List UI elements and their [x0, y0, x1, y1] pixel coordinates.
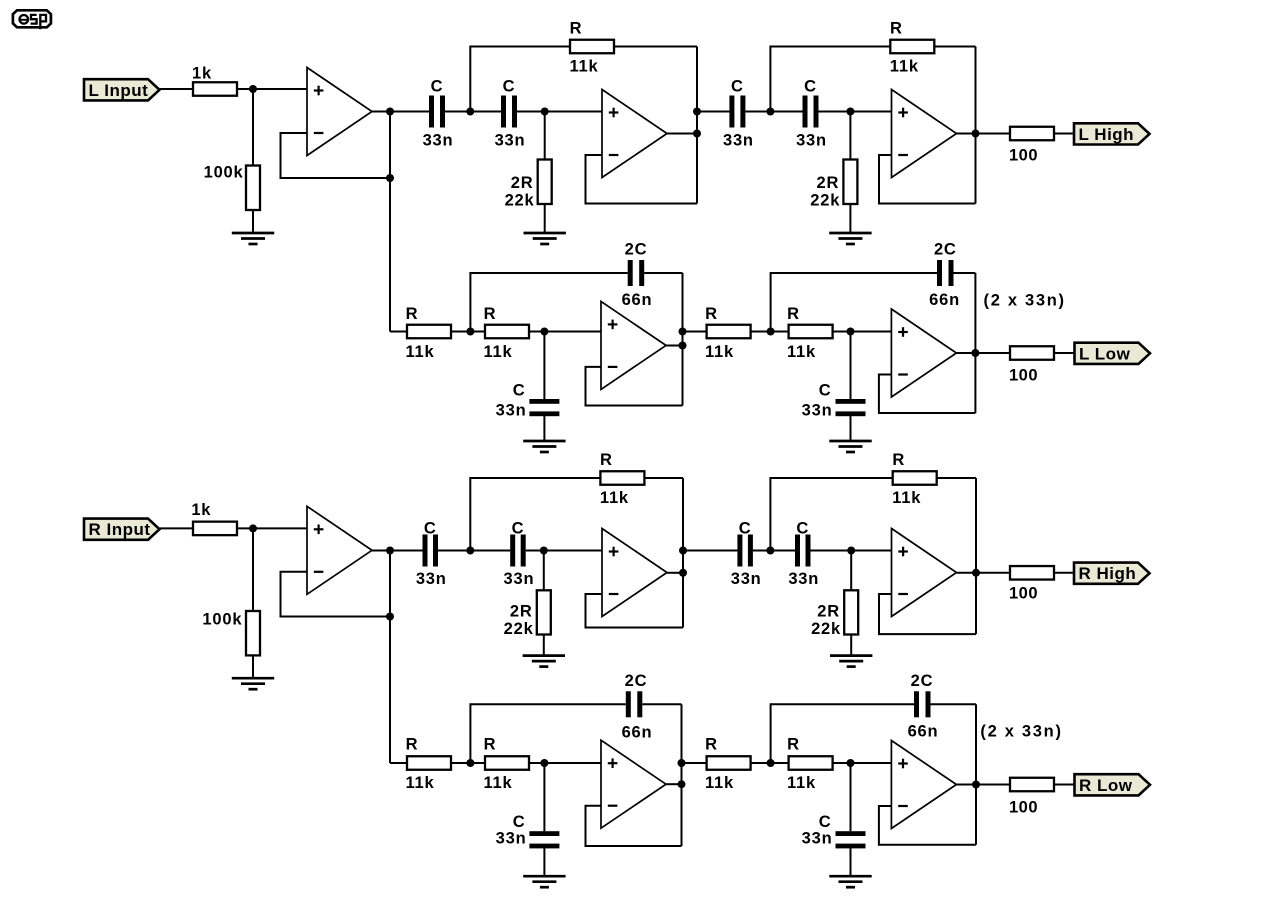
wire 2C to output node	[954, 272, 976, 274]
resistor 100k (L input load)	[246, 166, 260, 211]
ESP logo	[13, 10, 51, 29]
capacitor C 33n (R LP2 shunt)	[836, 831, 866, 848]
svg-text:33n: 33n	[496, 402, 527, 420]
resistor R 11k (L HP1 feedback)	[570, 40, 614, 54]
svg-text:66n: 66n	[908, 723, 939, 741]
output tag R Low	[1075, 774, 1151, 795]
svg-text:33n: 33n	[423, 132, 454, 150]
svg-text:11k: 11k	[483, 774, 512, 792]
svg-text:C: C	[431, 78, 444, 96]
wire L LP2 output	[956, 352, 1010, 354]
node L HP1 output	[693, 130, 701, 138]
ground (R LP2 C)	[829, 876, 871, 887]
wire L LP2 output vertical	[974, 273, 976, 413]
op-amp R LP2	[891, 741, 956, 829]
wire buffer output	[372, 111, 390, 113]
ground (R LP1 C)	[523, 876, 565, 887]
ground (L LP1 C)	[523, 441, 565, 452]
resistor 100 (R High output)	[1010, 566, 1054, 580]
svg-text:C: C	[424, 520, 437, 538]
capacitor C 33n (R HP2 first)	[737, 535, 753, 567]
wire C to ground	[543, 416, 545, 441]
wire buffer output vertical to low-pass row	[389, 551, 391, 764]
svg-text:11k: 11k	[787, 774, 816, 792]
resistor 100k (R input load)	[246, 611, 260, 655]
svg-text:(2 x 33n): (2 x 33n)	[984, 292, 1066, 310]
svg-text:1k: 1k	[192, 65, 212, 83]
svg-text:11k: 11k	[405, 774, 434, 792]
wire junction to 2R	[544, 112, 546, 160]
node R LP1 next-stage tap	[678, 759, 686, 767]
capacitor 2C 66n (L LP2 feedback)	[937, 260, 954, 286]
svg-text:66n: 66n	[622, 291, 653, 309]
svg-text:11k: 11k	[705, 343, 734, 361]
node R HP2 mid	[766, 547, 774, 555]
op-amp L HP2	[892, 90, 957, 178]
svg-text:R: R	[406, 736, 419, 754]
capacitor C 33n (R HP2 second)	[795, 535, 811, 567]
resistor R 11k (L LP2 second)	[789, 325, 833, 339]
wire R HP1 output vertical	[682, 478, 684, 628]
ground (L LP2 C)	[829, 441, 871, 452]
wire C2 to op-amp	[517, 111, 602, 113]
wire 2R to ground	[849, 204, 851, 233]
wire junction to 2R	[850, 551, 852, 591]
wire R HP2 output	[957, 572, 1011, 574]
svg-text:2C: 2C	[625, 672, 648, 690]
node R HP2 output	[972, 569, 980, 577]
wire R4 to op-amp	[833, 331, 892, 333]
svg-text:R Low: R Low	[1079, 776, 1133, 795]
svg-text:2C: 2C	[934, 241, 957, 259]
svg-text:33n: 33n	[788, 570, 819, 588]
svg-text:33n: 33n	[802, 402, 833, 420]
wire C1 to C2	[445, 111, 501, 113]
node L LP1 shunt junction	[540, 328, 548, 336]
wire junction down to C	[850, 763, 852, 831]
wire R HP2 inverting loop	[879, 594, 976, 634]
wire input node to 100k	[252, 89, 254, 166]
capacitor C 33n (L HP1 first)	[429, 96, 445, 128]
svg-text:33n: 33n	[723, 132, 754, 150]
node L LP2 mid	[767, 328, 775, 336]
svg-text:11k: 11k	[787, 343, 816, 361]
wire R2 to op-amp	[529, 762, 601, 764]
svg-text:C: C	[819, 382, 832, 400]
node L input junction	[249, 85, 257, 93]
wire input node to 100k	[252, 528, 254, 611]
wire L LP1 output	[666, 345, 683, 347]
resistor R 11k (L LP1 first)	[407, 325, 451, 339]
op-amp R LP1	[601, 740, 666, 828]
wire buffer output to C1	[390, 111, 429, 113]
svg-text:22k: 22k	[810, 192, 840, 210]
svg-text:C: C	[503, 78, 516, 96]
ground (L HP1 2R)	[524, 233, 566, 244]
node L LP1 next-stage tap	[679, 328, 687, 336]
wire R HP2 output vertical	[975, 478, 977, 634]
svg-text:33n: 33n	[496, 830, 527, 848]
capacitor C 33n (R HP1 second)	[510, 535, 526, 567]
node L LP2 output	[971, 349, 979, 357]
svg-text:(2 x 33n): (2 x 33n)	[980, 723, 1062, 741]
svg-text:C: C	[819, 813, 832, 831]
input tag R Input	[84, 519, 160, 540]
wire R HP1 feedback up	[470, 478, 600, 552]
wire R LP2 feedback up	[771, 704, 914, 764]
op-amp R HP2	[892, 529, 957, 617]
svg-text:22k: 22k	[504, 620, 534, 638]
wire 2C to output node	[642, 703, 681, 705]
resistor R 11k (R LP2 second)	[789, 756, 833, 770]
wire LP row from buffer	[390, 762, 407, 764]
wire 100k to ground	[252, 210, 254, 233]
ground (L 100k)	[232, 233, 274, 244]
wire R HP2 feedback up	[770, 478, 892, 552]
capacitor C 33n (L HP2 first)	[729, 96, 745, 128]
node buffer feedback junction	[386, 174, 394, 182]
wire 2R to ground	[544, 204, 546, 233]
svg-text:R: R	[787, 736, 800, 754]
wire buffer output to C1	[390, 550, 423, 552]
wire junction to 2R	[543, 551, 545, 591]
svg-text:66n: 66n	[622, 724, 653, 742]
node R HP1 next-stage tap	[679, 547, 687, 555]
wire R LP2 output	[956, 784, 1010, 786]
wire feedback R to output node	[614, 46, 697, 48]
wire junction down to C	[543, 763, 545, 831]
wire 100k to ground	[252, 655, 254, 678]
wire buffer output vertical to low-pass row	[389, 112, 391, 332]
capacitor C 33n (L LP1 shunt)	[529, 399, 559, 416]
svg-text:R: R	[600, 451, 613, 469]
svg-text:11k: 11k	[600, 489, 629, 507]
wire L LP2 feedback up	[771, 273, 937, 333]
svg-text:R: R	[570, 20, 583, 38]
wire R input tag to 1k	[160, 527, 194, 529]
resistor 100 (L High output)	[1010, 127, 1054, 141]
wire HP1 to C3	[697, 111, 729, 113]
resistor 2R 22k (L HP1)	[538, 160, 552, 205]
wire 2R to ground	[543, 635, 545, 656]
svg-text:100: 100	[1009, 585, 1038, 603]
wire 100 to L Low tag	[1054, 352, 1075, 354]
node R LP1 mid	[466, 759, 474, 767]
svg-text:2R: 2R	[816, 174, 839, 192]
wire C to ground	[850, 416, 852, 441]
node R HP1 shunt junction	[540, 547, 548, 555]
wire buffer output	[372, 550, 390, 552]
wire buffer feedback loop	[281, 133, 391, 178]
svg-text:R: R	[705, 736, 718, 754]
svg-text:R: R	[484, 305, 497, 323]
wire L HP2 feedback up	[770, 47, 890, 113]
capacitor C 33n (R HP1 first)	[423, 535, 439, 567]
wire C3 to C4	[753, 550, 795, 552]
resistor R 11k (L LP2 first)	[707, 325, 751, 339]
svg-text:R: R	[890, 20, 903, 38]
node L HP1 next-stage tap	[693, 108, 701, 116]
wire feedback R to output node	[937, 477, 976, 479]
svg-text:66n: 66n	[929, 291, 960, 309]
wire C to ground	[850, 848, 852, 876]
capacitor C 33n (R LP1 shunt)	[529, 831, 559, 848]
wire L LP1 feedback up	[470, 273, 627, 333]
svg-text:11k: 11k	[483, 343, 512, 361]
node R LP1 output	[678, 780, 686, 788]
svg-text:C: C	[512, 520, 525, 538]
wire R3 to R4	[751, 331, 789, 333]
node R HP1 output	[679, 569, 687, 577]
wire L HP2 output vertical	[975, 47, 977, 204]
wire 100 to R Low tag	[1054, 784, 1075, 786]
wire L HP1 feedback up	[470, 47, 570, 113]
wire 100 to L High tag	[1054, 133, 1074, 135]
node L HP2 mid	[766, 108, 774, 116]
node R input junction	[249, 524, 257, 532]
svg-text:R: R	[406, 305, 419, 323]
resistor 1k (R input)	[193, 522, 237, 536]
ground (R HP1 2R)	[523, 656, 565, 667]
svg-text:33n: 33n	[802, 830, 833, 848]
svg-text:33n: 33n	[495, 132, 526, 150]
resistor R 11k (R HP1 feedback)	[600, 471, 644, 485]
svg-text:C: C	[739, 520, 752, 538]
wire feedback R to output node	[934, 46, 975, 48]
input tag L Input	[84, 79, 160, 100]
ground (R HP2 2R)	[830, 656, 872, 667]
svg-text:C: C	[513, 382, 526, 400]
wire C1 to C2	[438, 550, 510, 552]
svg-text:R: R	[484, 736, 497, 754]
wire 1k to buffer op-amp	[237, 88, 307, 90]
node L HP1 mid	[466, 108, 474, 116]
resistor R 11k (R LP2 first)	[707, 756, 751, 770]
wire R LP2 inverting loop	[879, 806, 976, 845]
svg-text:R: R	[705, 305, 718, 323]
resistor R 11k (R LP1 first)	[407, 756, 451, 770]
wire C4 to op-amp	[811, 550, 892, 552]
node R HP1 mid	[466, 547, 474, 555]
svg-text:1k: 1k	[191, 501, 211, 519]
wire C3 to C4	[745, 111, 802, 113]
wire junction down to C	[543, 332, 545, 400]
svg-text:2C: 2C	[625, 241, 648, 259]
wire LP1 to R3	[683, 331, 707, 333]
resistor 2R 22k (L HP2)	[843, 160, 857, 205]
svg-text:2R: 2R	[817, 603, 840, 621]
wire buffer feedback loop	[281, 572, 391, 617]
wire R LP1 output vertical	[681, 704, 683, 846]
wire 100 to R High tag	[1054, 572, 1074, 574]
wire R1 to R2	[451, 762, 485, 764]
node L HP1 shunt junction	[541, 108, 549, 116]
capacitor C 33n (L HP2 second)	[803, 96, 819, 128]
wire L HP2 output	[957, 133, 1011, 135]
wire R HP1 output	[667, 572, 683, 574]
node R LP1 shunt junction	[540, 759, 548, 767]
node L LP2 shunt junction	[847, 328, 855, 336]
wire junction down to C	[850, 332, 852, 400]
svg-text:22k: 22k	[505, 192, 535, 210]
svg-text:R Input: R Input	[89, 520, 151, 539]
svg-text:2C: 2C	[911, 672, 934, 690]
svg-text:33n: 33n	[416, 570, 447, 588]
wire L HP1 output vertical	[696, 47, 698, 204]
wire R2 to op-amp	[529, 331, 601, 333]
wire R3 to R4	[751, 762, 789, 764]
svg-text:L Low: L Low	[1079, 344, 1131, 363]
wire R HP1 inverting loop	[586, 594, 684, 628]
wire LP1 to R3	[682, 762, 707, 764]
wire L HP1 output	[667, 133, 697, 135]
node R LP2 output	[972, 781, 980, 789]
node R LP2 shunt junction	[847, 759, 855, 767]
node buffer feedback junction	[386, 613, 394, 621]
resistor R 11k (R HP2 feedback)	[893, 471, 937, 485]
svg-text:C: C	[513, 813, 526, 831]
node L buffer output	[386, 108, 394, 116]
wire 1k to buffer op-amp	[237, 527, 307, 529]
ground (L HP2 2R)	[829, 233, 871, 244]
wire L LP2 inverting loop	[879, 375, 976, 414]
svg-text:33n: 33n	[796, 132, 827, 150]
wire junction to 2R	[849, 112, 851, 160]
output tag R High	[1074, 563, 1150, 584]
resistor 1k (L input)	[193, 82, 237, 96]
wire 2C to output node	[931, 703, 977, 705]
svg-text:R High: R High	[1079, 564, 1137, 583]
capacitor 2C 66n (L LP1 feedback)	[628, 260, 645, 286]
svg-text:11k: 11k	[569, 58, 598, 76]
svg-text:R: R	[787, 305, 800, 323]
wire C2 to op-amp	[526, 550, 602, 552]
wire R LP1 feedback up	[470, 704, 625, 764]
resistor R 11k (L HP2 feedback)	[890, 40, 934, 54]
wire L input tag to 1k	[160, 88, 194, 90]
op-amp L LP1	[601, 301, 666, 389]
svg-text:11k: 11k	[892, 489, 921, 507]
svg-text:11k: 11k	[705, 774, 734, 792]
wire 2C to output node	[644, 272, 682, 274]
wire C to ground	[543, 848, 545, 876]
svg-text:100: 100	[1009, 367, 1038, 385]
op-amp R input buffer	[307, 506, 372, 594]
wire 2R to ground	[850, 635, 852, 656]
svg-text:100k: 100k	[204, 164, 244, 182]
wire LP row from buffer	[390, 331, 407, 333]
ground (R 100k)	[232, 678, 274, 689]
capacitor 2C 66n (R LP1 feedback)	[626, 691, 643, 717]
svg-text:33n: 33n	[731, 570, 762, 588]
wire R LP2 output vertical	[975, 704, 977, 844]
output tag L High	[1074, 123, 1150, 144]
resistor R 11k (L LP1 second)	[485, 325, 529, 339]
svg-text:L High: L High	[1079, 125, 1135, 144]
capacitor 2C 66n (R LP2 feedback)	[914, 691, 931, 717]
capacitor C 33n (L LP2 shunt)	[836, 399, 866, 416]
resistor R 11k (R LP1 second)	[485, 756, 529, 770]
node L LP1 output	[679, 342, 687, 350]
svg-text:L Input: L Input	[89, 81, 149, 100]
wire C4 to op-amp	[819, 111, 892, 113]
node L HP2 shunt junction	[846, 108, 854, 116]
wire R LP1 inverting loop	[586, 806, 682, 846]
svg-text:2R: 2R	[511, 174, 534, 192]
wire R LP1 output	[666, 783, 682, 785]
node R LP2 mid	[767, 759, 775, 767]
svg-text:11k: 11k	[405, 343, 434, 361]
svg-text:C: C	[731, 78, 744, 96]
resistor 100 (L Low output)	[1010, 346, 1054, 360]
svg-text:33n: 33n	[504, 570, 535, 588]
op-amp R HP1	[602, 529, 667, 617]
node R buffer output	[386, 547, 394, 555]
node L HP2 output	[972, 130, 980, 138]
wire L HP1 inverting loop	[586, 155, 698, 204]
wire feedback R to output node	[644, 477, 683, 479]
svg-text:C: C	[804, 78, 817, 96]
svg-text:R: R	[892, 451, 905, 469]
wire L LP1 output vertical	[682, 273, 684, 406]
node L LP1 mid	[466, 328, 474, 336]
wire HP1 to C3	[683, 550, 737, 552]
output tag L Low	[1075, 343, 1151, 364]
resistor 2R 22k (R HP2)	[844, 590, 858, 634]
wire L HP2 inverting loop	[879, 155, 976, 204]
svg-text:100k: 100k	[202, 611, 242, 629]
wire R4 to op-amp	[833, 762, 892, 764]
wire R1 to R2	[451, 331, 485, 333]
node R HP2 shunt junction	[847, 547, 855, 555]
op-amp L input buffer	[307, 68, 372, 156]
wire L LP1 inverting loop	[586, 367, 683, 406]
capacitor C 33n (L HP1 second)	[501, 96, 517, 128]
svg-text:11k: 11k	[890, 58, 919, 76]
resistor 100 (R Low output)	[1010, 778, 1054, 792]
op-amp L HP1	[602, 90, 667, 178]
svg-text:100: 100	[1009, 799, 1038, 817]
svg-text:C: C	[796, 520, 809, 538]
svg-text:22k: 22k	[811, 620, 841, 638]
resistor 2R 22k (R HP1)	[537, 590, 551, 634]
op-amp L LP2	[891, 309, 956, 397]
svg-text:2R: 2R	[510, 603, 533, 621]
svg-text:100: 100	[1009, 147, 1038, 165]
